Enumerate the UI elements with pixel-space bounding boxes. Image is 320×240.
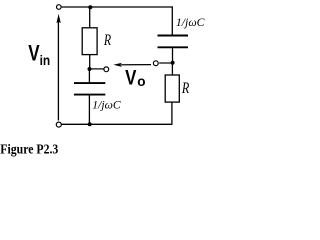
capacitor C (bottom-left), top plate <box>74 82 105 84</box>
wire: top-right capacitor down to node B <box>172 47 174 63</box>
capacitor C (bottom-left), bottom plate <box>74 94 105 96</box>
resistor R (right) <box>165 75 179 102</box>
svg-text:R: R <box>181 80 189 97</box>
wire: top node down to resistor R (left) <box>89 7 91 28</box>
svg-text:V: V <box>28 41 40 66</box>
wire: resistor R bottom to node A <box>89 55 91 70</box>
terminal: V_in + (top-left open circle) <box>57 5 62 10</box>
wire: resistor R (right) bottom to bottom wire <box>171 102 173 125</box>
capacitor C (top-right), top plate <box>158 35 189 37</box>
terminal: V_o - (right open circle) <box>153 61 158 66</box>
svg-text:1/jωC: 1/jωC <box>176 17 205 29</box>
svg-text:R: R <box>103 32 111 49</box>
svg-text:o: o <box>137 73 145 89</box>
junction: node A <box>88 67 92 71</box>
svg-text:in: in <box>40 52 51 68</box>
svg-text:1/jωC: 1/jωC <box>92 99 121 111</box>
voltage arrow: V_o (horizontal, pointing left) <box>113 63 151 67</box>
wire: node B to V_o right terminal <box>159 62 172 64</box>
junction: node B <box>171 61 175 65</box>
junction: top node <box>88 5 92 9</box>
wire: top-right vertical down to capacitor 1/jwC (top-right) <box>171 6 173 35</box>
svg-text:Figure P2.3: Figure P2.3 <box>0 143 58 158</box>
wire: bottom capacitor to bottom wire <box>88 95 90 125</box>
wire: node B down to resistor R (right) <box>171 63 173 76</box>
wire: bottom horizontal <box>62 123 172 125</box>
junction: bottom node <box>88 122 92 126</box>
resistor R (left) <box>82 28 97 55</box>
wire: top horizontal <box>62 6 173 8</box>
terminal: V_o + (left open circle) <box>104 67 109 72</box>
wire: node A to V_o left terminal <box>90 68 104 70</box>
svg-text:V: V <box>125 67 136 90</box>
capacitor C (top-right), bottom plate <box>158 46 189 48</box>
terminal: V_in - (bottom-left open circle) <box>56 122 61 127</box>
wire: node A down to capacitor 1/jwC (bottom) <box>88 69 90 83</box>
voltage arrow: V_in (vertical, pointing up) <box>56 14 60 121</box>
